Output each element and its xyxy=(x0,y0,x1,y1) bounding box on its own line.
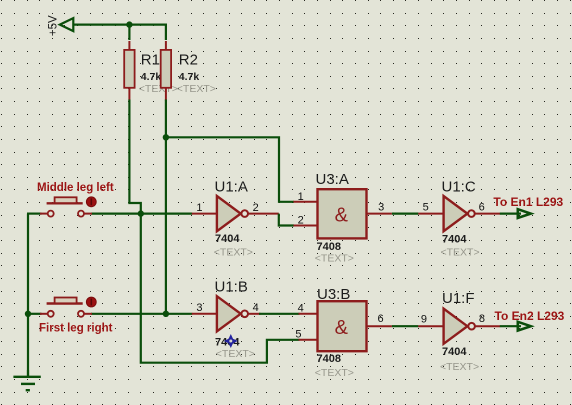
svg-text:7404: 7404 xyxy=(442,346,467,358)
svg-text:4: 4 xyxy=(298,303,304,315)
svg-text:1: 1 xyxy=(298,191,304,203)
svg-text:7408: 7408 xyxy=(317,353,341,365)
pushbutton "First leg right" xyxy=(39,297,113,334)
svg-text:5: 5 xyxy=(295,329,301,341)
and-gate U3:A xyxy=(293,171,392,265)
terminal To En2 L293 xyxy=(495,309,565,331)
wire: rail to button1 xyxy=(27,213,42,215)
wire: R2 bottom long vertical xyxy=(165,100,167,314)
inverter U1:A xyxy=(192,179,279,259)
svg-text:<TEXT>: <TEXT> xyxy=(315,367,354,379)
svg-text:U1:B: U1:B xyxy=(215,279,248,296)
svg-text:5: 5 xyxy=(423,202,429,214)
svg-text:R2: R2 xyxy=(179,52,198,69)
svg-text:U3:A: U3:A xyxy=(316,171,349,188)
svg-text:7404: 7404 xyxy=(442,234,467,246)
wire: U3:A out to U1:C xyxy=(392,213,419,215)
inverter U1:C xyxy=(418,179,500,259)
wire: U1:B out to U3:B pin4 xyxy=(259,313,300,315)
svg-text:1: 1 xyxy=(196,202,202,214)
svg-text:<TEXT>: <TEXT> xyxy=(177,83,216,95)
svg-text:Middle leg left: Middle leg left xyxy=(37,182,114,194)
svg-text:First leg right: First leg right xyxy=(39,323,113,335)
svg-text:<TEXT>: <TEXT> xyxy=(214,247,253,259)
wire: U1:C out to terminal xyxy=(500,213,521,215)
power terminal +5V xyxy=(48,15,74,36)
svg-text:<TEXT>: <TEXT> xyxy=(139,83,178,95)
svg-text:U1:F: U1:F xyxy=(442,290,475,307)
svg-text:4.7k: 4.7k xyxy=(179,71,200,83)
svg-text:R1: R1 xyxy=(141,52,160,69)
inverter U1:B xyxy=(192,279,261,360)
svg-text:3: 3 xyxy=(196,302,202,314)
wire: left rail xyxy=(27,214,29,376)
resistor R2 xyxy=(161,41,216,101)
svg-text:6: 6 xyxy=(479,202,485,214)
svg-text:&: & xyxy=(335,204,349,226)
and-gate U3:B xyxy=(295,286,392,379)
node: junction R2 branch xyxy=(163,134,169,140)
node: junction +5V/R1 xyxy=(126,21,132,27)
svg-text:U1:C: U1:C xyxy=(442,179,476,196)
svg-text:9: 9 xyxy=(421,314,427,326)
node: junction rail/button2 xyxy=(25,311,31,317)
svg-text:4: 4 xyxy=(253,302,259,314)
svg-text:<TEXT>: <TEXT> xyxy=(441,247,480,259)
wire: R1 bottom to button1 net xyxy=(129,100,140,214)
svg-text:To En2 L293: To En2 L293 xyxy=(495,309,565,323)
inverter U1:F xyxy=(418,290,500,373)
wire: U1:F out to terminal xyxy=(500,325,521,327)
svg-text:<TEXT>: <TEXT> xyxy=(315,253,354,265)
node: junction R2/button2 xyxy=(163,311,169,317)
svg-text:6: 6 xyxy=(377,313,383,325)
terminal To En1 L293 xyxy=(493,195,563,218)
node: junction button1/R1 xyxy=(138,210,144,216)
wire: U1:A out to U3:A pin2 xyxy=(279,214,294,226)
svg-text:2: 2 xyxy=(253,202,259,214)
svg-text:<TEXT>: <TEXT> xyxy=(440,361,479,373)
wire: button1 net down to U3:B pin5 xyxy=(141,214,300,363)
pushbutton "Middle leg left" xyxy=(37,182,114,217)
wire: U3:B out to U1:F xyxy=(392,325,419,327)
svg-text:To En1 L293: To En1 L293 xyxy=(493,195,563,209)
svg-text:3: 3 xyxy=(378,202,384,214)
wire: junction down to R1 xyxy=(128,25,130,40)
wire: R2 branch to U3:A pin1 xyxy=(166,137,294,202)
wire: button2 to U1:B xyxy=(91,313,192,315)
wire: button1 to U1:A xyxy=(91,213,192,215)
wire: rail to button2 xyxy=(27,313,42,315)
resistor R1 xyxy=(124,41,178,101)
svg-text:+5V: +5V xyxy=(48,15,60,36)
svg-text:7404: 7404 xyxy=(215,233,240,245)
svg-text:&: & xyxy=(335,317,349,339)
svg-text:8: 8 xyxy=(479,313,485,325)
svg-text:2: 2 xyxy=(298,215,304,227)
svg-text:U1:A: U1:A xyxy=(215,179,248,196)
ground xyxy=(13,370,40,390)
svg-text:<TEXT>: <TEXT> xyxy=(216,348,255,360)
origin marker (blue crosshair) xyxy=(224,334,238,348)
svg-text:4.7k: 4.7k xyxy=(141,71,162,83)
wire: +5V rail to R2 top xyxy=(73,25,166,40)
svg-text:7408: 7408 xyxy=(317,241,341,253)
